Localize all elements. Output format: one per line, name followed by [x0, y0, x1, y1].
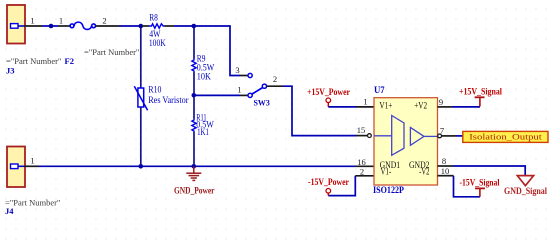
wire SW3 pin2 to U7 pin15: [283, 86, 356, 135]
svg-text:ISO122P: ISO122P: [373, 185, 404, 195]
svg-text:+15V_Power: +15V_Power: [307, 87, 350, 97]
svg-text:-15V_Power: -15V_Power: [308, 177, 349, 187]
wire J3 to fuse: [42, 25, 58, 27]
svg-text:1: 1: [237, 85, 241, 95]
svg-text:-V2: -V2: [419, 167, 429, 177]
power -15V_Power: [308, 177, 349, 195]
U7 pin 1: [356, 97, 374, 107]
resistor R11: [192, 98, 214, 165]
U7 pin 8: [438, 156, 454, 166]
power +15V_Power: [307, 87, 350, 107]
svg-text:R8: R8: [149, 12, 158, 22]
svg-text:1: 1: [30, 156, 34, 166]
U7 pin 10: [438, 166, 454, 176]
svg-text:Isolation_Output: Isolation_Output: [469, 132, 542, 142]
power +15V_Signal: [459, 87, 502, 107]
U7 pin 15: [356, 125, 371, 138]
junction R10 bottom: [139, 164, 144, 169]
fuse F2 labels: [65, 47, 140, 66]
svg-text:8: 8: [442, 156, 446, 166]
fuse F2 pin 2: [96, 16, 120, 27]
junction node A: [139, 24, 144, 29]
wire U7 pin2 to -15V_Power: [328, 176, 355, 196]
resistor R9: [192, 28, 215, 93]
SW3 pin 2: [267, 74, 284, 86]
U7 pin 7: [438, 126, 456, 138]
svg-text:16: 16: [357, 157, 366, 167]
J4 labels: [5, 198, 60, 216]
wire U7 pin10 to -15V_Signal: [454, 176, 481, 197]
junction node C: [192, 93, 197, 98]
svg-text:15: 15: [357, 125, 366, 135]
svg-text:="Part Number": ="Part Number": [84, 47, 139, 57]
svg-text:GND_Signal: GND_Signal: [504, 186, 547, 196]
svg-text:Res Varistor: Res Varistor: [148, 95, 188, 105]
svg-text:1: 1: [59, 16, 63, 26]
ground GND_Power: [174, 166, 215, 195]
wire R8 to node B: [174, 25, 192, 27]
SW3 pin 1: [237, 85, 247, 96]
switch SW3: [248, 73, 270, 107]
J4 pin 1: [25, 156, 39, 167]
svg-text:1: 1: [30, 16, 34, 26]
SW3 pin 3: [235, 65, 247, 76]
svg-text:2: 2: [102, 16, 106, 26]
svg-text:U7: U7: [374, 85, 385, 95]
U7 pin 2: [355, 166, 374, 176]
wire U7 pin9 to +15V_Signal: [452, 106, 480, 108]
svg-text:J3: J3: [6, 66, 15, 76]
wire bottom rail: [39, 165, 356, 167]
fuse F2 pin 1: [58, 16, 70, 27]
J3 pin 1: [25, 16, 43, 27]
J3 labels: [6, 56, 61, 76]
svg-text:100K: 100K: [149, 38, 166, 48]
junction R11 bottom / ground node: [192, 164, 197, 169]
svg-text:GND_Power: GND_Power: [174, 185, 215, 195]
svg-text:10K: 10K: [197, 72, 212, 82]
wire node C to SW3 pin 1: [196, 94, 240, 96]
U7 pin 16: [355, 157, 374, 167]
svg-text:+15V_Signal: +15V_Signal: [459, 87, 502, 97]
U7 pin 9: [438, 97, 453, 107]
svg-text:="Part Number": ="Part Number": [6, 56, 61, 66]
wire fuse to R8: [119, 25, 139, 27]
svg-text:1: 1: [363, 97, 367, 107]
power -15V_Signal: [460, 178, 500, 197]
junction dot: [49, 24, 54, 29]
svg-text:9: 9: [439, 97, 443, 107]
svg-text:V1-: V1-: [381, 167, 392, 177]
svg-text:2: 2: [360, 166, 364, 176]
fuse F2: [70, 22, 95, 29]
varistor R10: [134, 28, 188, 164]
svg-text:1K1: 1K1: [197, 127, 209, 137]
svg-text:+V2: +V2: [414, 101, 427, 111]
svg-text:SW3: SW3: [254, 98, 270, 108]
connector J4: [7, 147, 25, 188]
wire U7 pin8 to GND_Signal: [453, 166, 525, 176]
resistor R8: [142, 12, 174, 48]
wire +15V_Power to U7 pin 1: [328, 106, 356, 108]
svg-text:7: 7: [440, 126, 444, 136]
ground GND_Signal: [504, 176, 547, 196]
svg-text:F2: F2: [65, 56, 74, 66]
svg-text:3: 3: [235, 65, 239, 75]
connector J3: [7, 5, 25, 44]
svg-text:10: 10: [441, 166, 450, 176]
svg-text:2: 2: [273, 74, 277, 84]
port Isolation_Output: [463, 131, 548, 142]
wire U7 pin7 to port: [456, 135, 463, 137]
op-amp U7: [373, 85, 438, 195]
svg-text:R10: R10: [148, 85, 161, 95]
svg-text:J4: J4: [5, 206, 14, 216]
svg-text:-15V_Signal: -15V_Signal: [460, 178, 500, 188]
junction node B: [192, 24, 197, 29]
wire node B to SW3 pin 3: [196, 26, 240, 76]
svg-text:V1+: V1+: [379, 101, 392, 111]
